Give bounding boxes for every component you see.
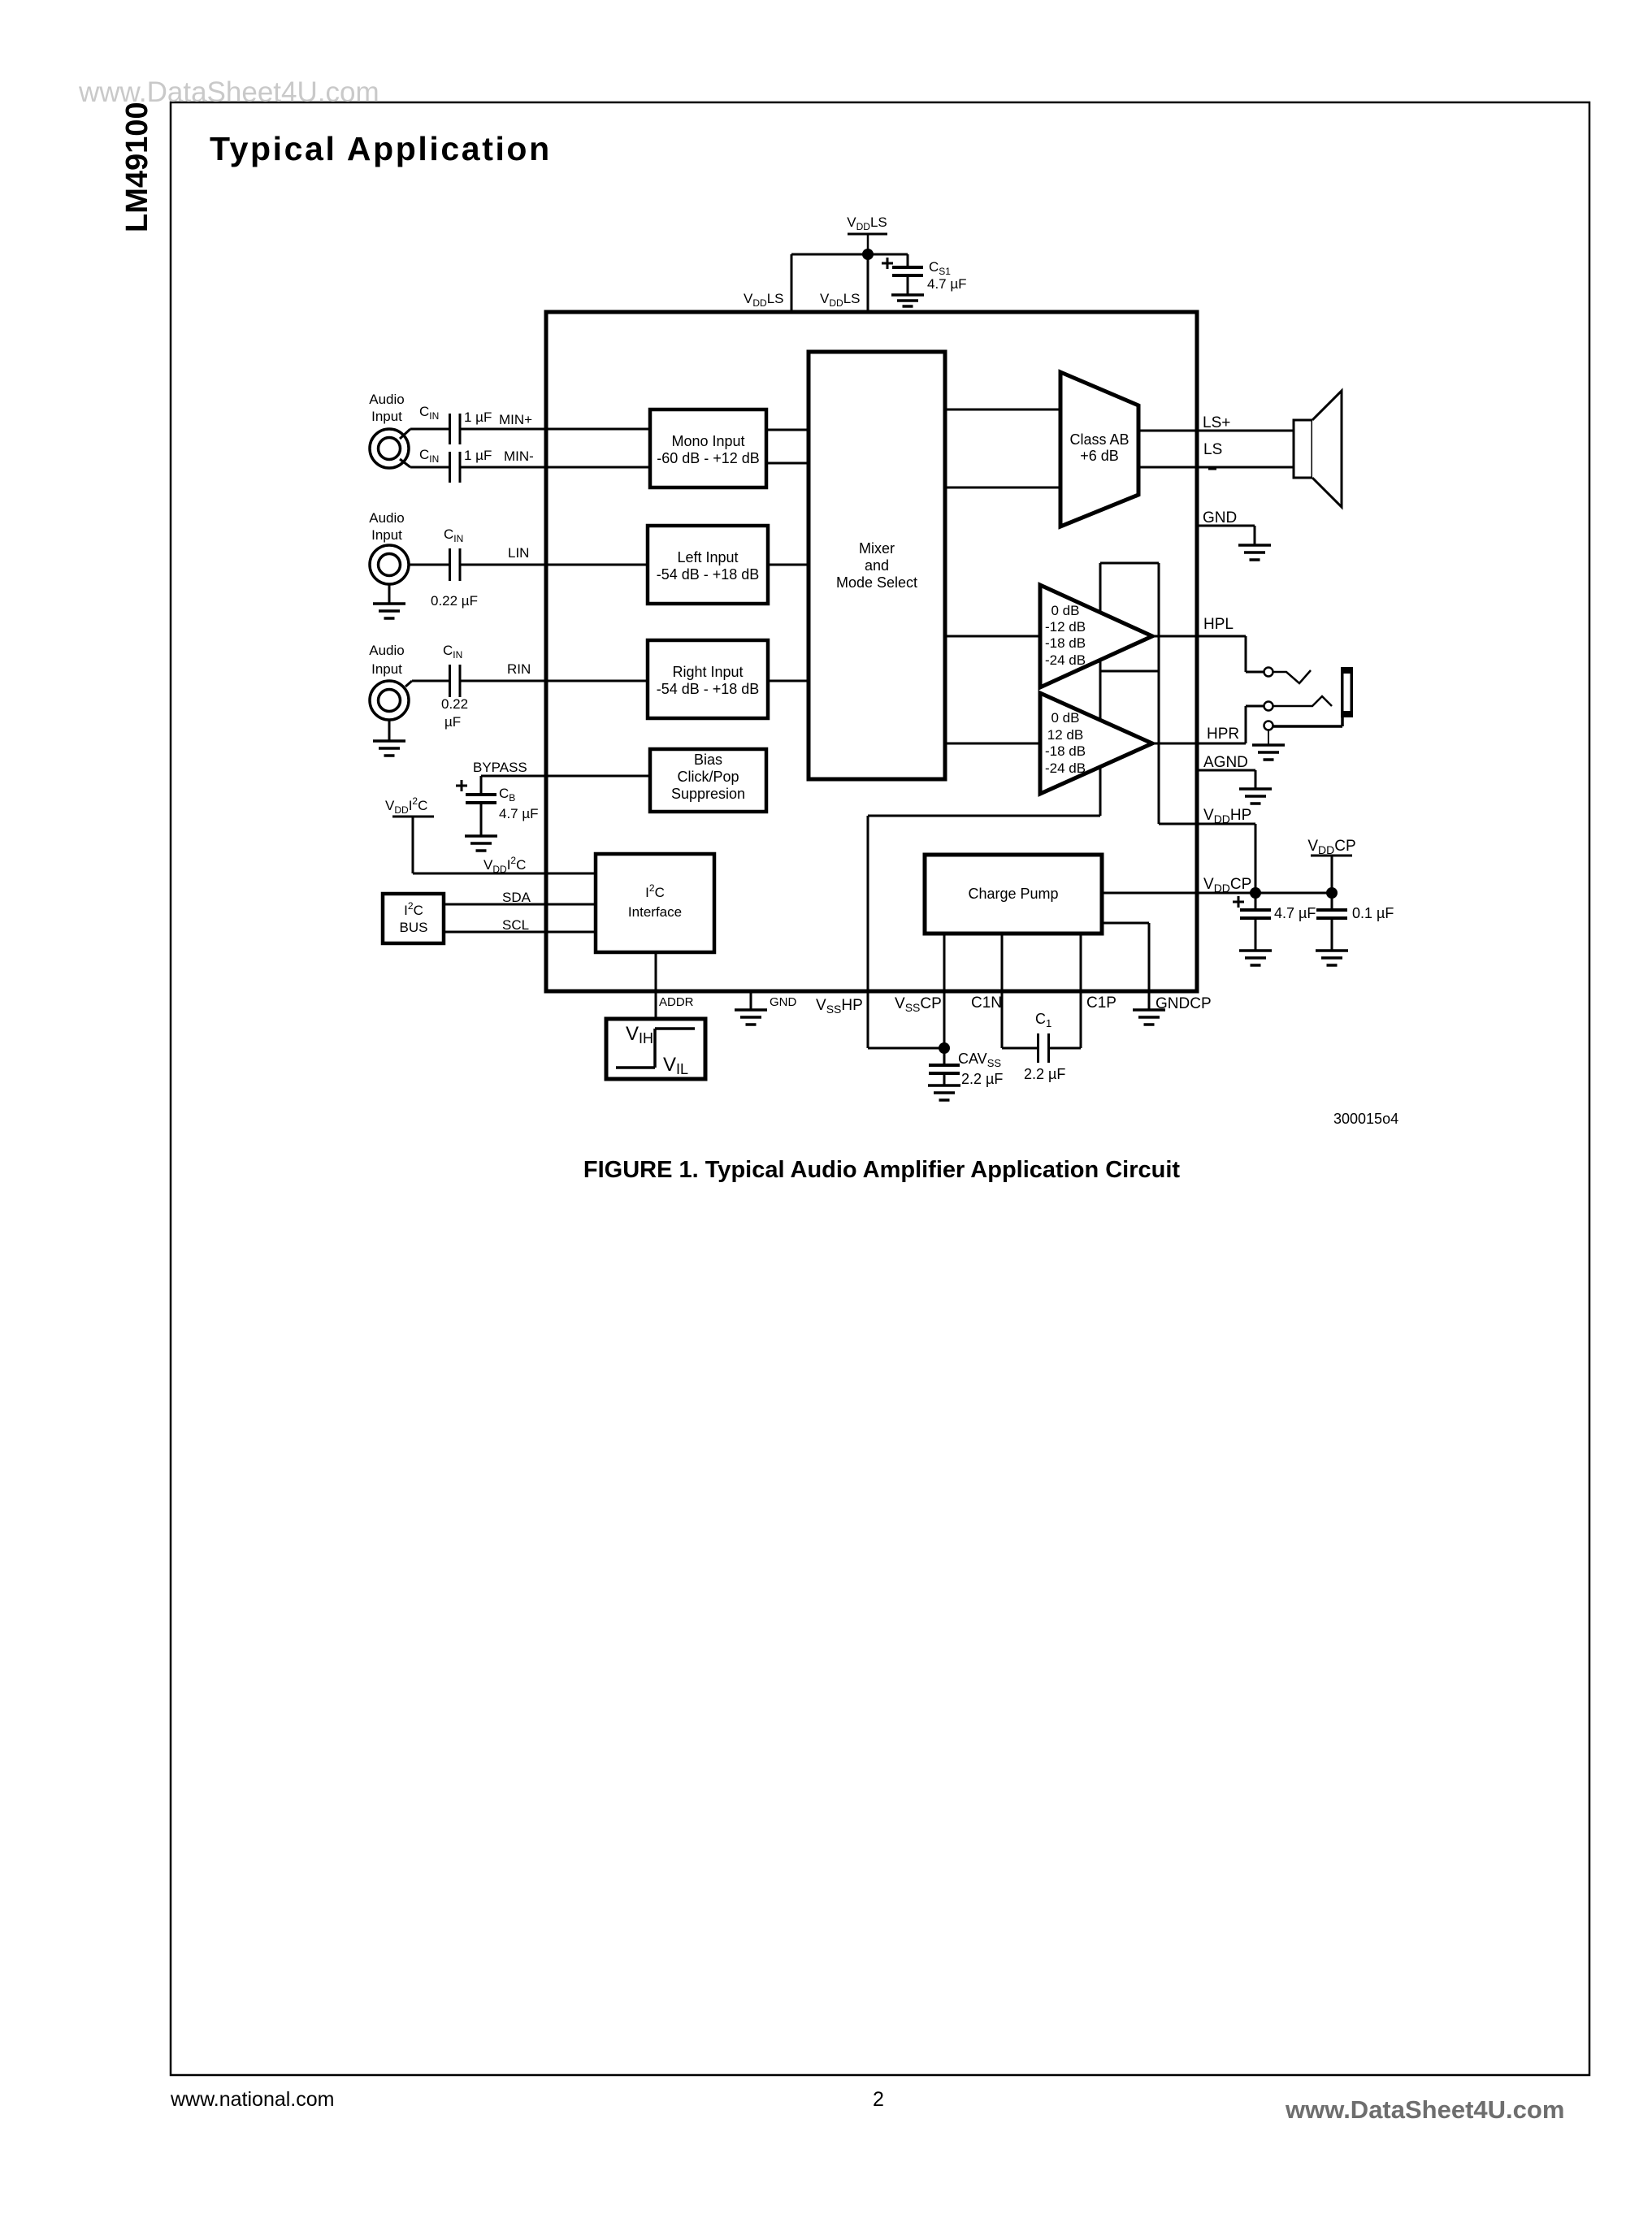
svg-text:0 dB: 0 dB [1051,710,1080,726]
svg-text:RIN: RIN [507,661,531,677]
wire LS+ [1138,430,1294,432]
wire C1N pin [1001,934,1004,1048]
wire mono to mixer b [766,462,809,465]
svg-text:AGND: AGND [1203,754,1248,771]
svg-text:Audio: Audio [369,510,404,526]
wire MIN- [410,466,449,469]
svg-text:I2​C: I2​C [645,882,665,900]
wire BYPASS [481,775,650,778]
svg-text:SDA: SDA [502,890,531,905]
block Bias Click/Pop Suppresion [650,749,766,812]
ground CB [465,834,497,838]
svg-text:-54 dB - +18 dB: -54 dB - +18 dB [657,681,760,697]
ground speaker GND [1238,544,1271,547]
wire rail mid connector [1100,670,1159,673]
svg-text:Input: Input [371,661,402,677]
svg-text:Audio: Audio [369,392,404,407]
svg-text:C1N: C1N [971,994,1002,1012]
svg-text:BYPASS: BYPASS [473,760,527,775]
capacitor CIN 0.22uF (RIN) [449,665,451,697]
svg-text:Mixer: Mixer [859,540,895,557]
svg-text:0.22 µF: 0.22 µF [431,593,478,609]
wire mixer to class AB a [945,409,1060,411]
block I2C Interface [596,854,714,952]
svg-text:1 µF: 1 µF [464,448,492,463]
block Mixer and Mode Select [809,352,945,779]
svg-text:300015o4: 300015o4 [1333,1111,1398,1127]
switch tip lever [1273,670,1311,683]
block VIH VIL logic levels [606,1019,705,1079]
wire mixer to HPL amp [945,635,1040,638]
svg-text:HPL: HPL [1203,616,1234,633]
capacitor 4.7uF VDDCP [1255,893,1257,910]
capacitor 0.1uF VDDCP [1331,893,1333,910]
svg-text:4.7 µF: 4.7 µF [499,806,539,821]
svg-text:Mode Select: Mode Select [836,574,917,591]
ground jack sleeve [1268,730,1269,745]
jack sleeve contact [1264,721,1273,730]
rail VDDHP vertical [1158,563,1160,824]
wire VDDCP [1102,892,1332,895]
wire ADDR [655,952,657,1019]
svg-text:12 dB: 12 dB [1047,727,1083,743]
svg-text:Mono Input: Mono Input [671,433,744,449]
wire VDDHP to pin [1159,823,1197,825]
ground CAVSS [928,1084,960,1087]
ground 4.7uF [1239,949,1272,952]
wire mixer to HPR amp [945,743,1040,745]
svg-text:-60 dB - +12 dB: -60 dB - +12 dB [657,450,760,466]
wire mixer to class AB b [945,487,1060,489]
wire rail top connector [1100,562,1159,565]
amplifier HPR headphone right [1040,693,1152,794]
svg-text:0.22: 0.22 [441,696,468,712]
wire AGND [1197,769,1255,772]
wire GND speaker [1197,525,1255,527]
svg-text:2: 2 [873,2088,884,2111]
svg-text:BUS: BUS [400,920,428,935]
capacitor CIN 1uF (MIN+) [449,414,451,444]
RCA jack J3 [370,681,409,720]
svg-text:www.DataSheet4U.com: www.DataSheet4U.com [1285,2095,1564,2124]
svg-text:Left Input: Left Input [677,549,738,565]
wire MIN+ [410,428,449,431]
svg-text:Right Input: Right Input [672,664,743,680]
svg-text:Interface: Interface [628,904,682,920]
svg-text:Audio: Audio [369,643,404,658]
RCA jack J1 [370,429,409,468]
svg-text:FIGURE 1. Typical Audio Amplif: FIGURE 1. Typical Audio Amplifier Applic… [583,1157,1181,1183]
svg-text:4.7 µF: 4.7 µF [927,276,967,292]
svg-text:4.7 µF: 4.7 µF [1274,905,1316,921]
svg-text:2.2 µF: 2.2 µF [961,1071,1003,1087]
wire sleeve to jack body [1273,725,1342,728]
rail VSSHP vertical [1099,563,1102,816]
wire VDDLS to pin2 [867,254,869,312]
wire GNDCP [1102,922,1149,925]
ground CS1 [891,293,924,297]
svg-text:Bias: Bias [694,752,722,768]
wire SCL [444,931,596,934]
svg-text:-24 dB: -24 dB [1045,760,1086,776]
wire HPL output [1152,635,1246,638]
svg-text:Input: Input [371,527,402,543]
svg-text:Charge Pump: Charge Pump [968,886,1058,902]
jack tip contact [1264,668,1273,677]
svg-text:+6 dB: +6 dB [1080,448,1119,464]
wire VSSCP pin [943,934,946,1048]
junction VDDCP a [1250,887,1261,899]
jack ring contact [1264,702,1273,711]
svg-text:www.national.com: www.national.com [170,2088,334,2111]
capacitor CIN 0.22uF (LIN) [449,548,451,581]
RCA jack J2 [370,545,409,584]
block Mono Input [650,409,766,487]
speaker LS [1294,420,1312,478]
capacitor CIN 1uF (MIN-) [449,452,451,483]
amplifier Class AB +6dB [1060,372,1138,526]
IC boundary U1 LM49100 [546,312,1197,991]
svg-text:0.1 µF: 0.1 µF [1352,905,1394,921]
block Left Input [648,526,768,604]
junction VSSCP node [939,1042,950,1054]
wire RIN [412,680,449,682]
ground GND bottom [750,991,752,1010]
svg-text:ADDR: ADDR [659,995,694,1009]
svg-text:MIN+: MIN+ [499,412,532,427]
svg-text:-24 dB: -24 dB [1045,652,1086,668]
svg-text:-54 dB - +18 dB: -54 dB - +18 dB [657,566,760,583]
svg-text:µF: µF [444,714,461,730]
wire right to mixer [768,680,809,682]
svg-text:-18 dB: -18 dB [1045,743,1086,759]
svg-text:Typical Application: Typical Application [210,130,552,167]
wire LS- [1138,466,1294,469]
svg-text:C1P: C1P [1086,994,1117,1012]
ground GNDCP [1133,1008,1165,1012]
svg-text:-18 dB: -18 dB [1045,635,1086,651]
capacitor C1 2.2uF [1037,1033,1039,1063]
svg-text:GND: GND [1203,509,1237,526]
wire VDDI2C to interface [413,873,596,875]
block Right Input [648,640,768,718]
svg-text:Class AB: Class AB [1069,431,1129,448]
svg-text:MIN-: MIN- [504,448,534,464]
svg-text:2.2 µF: 2.2 µF [1024,1066,1065,1082]
svg-text:and: and [865,557,889,574]
wire left to mixer [768,564,809,566]
svg-text:Click/Pop: Click/Pop [677,769,739,785]
svg-text:Input: Input [371,409,402,424]
wire VSSHP to pin [868,815,1100,817]
svg-text:HPR: HPR [1207,726,1239,743]
wire VSS junction [868,1047,944,1050]
block Charge Pump [925,855,1102,934]
capacitor CS1 4.7uF [882,262,893,265]
capacitor CB 4.7uF [480,776,483,795]
ground AGND [1239,787,1272,791]
wire LIN [409,564,449,566]
svg-text:SCL: SCL [502,917,529,933]
ground J3 [388,720,391,741]
svg-text:-12 dB: -12 dB [1045,619,1086,635]
capacitor CAVSS 2.2uF [943,1048,946,1065]
wire VDDHP external [1197,823,1255,825]
ground J2 [388,584,391,604]
wire HPR output [1152,743,1246,745]
wire SDA [444,903,596,906]
svg-text:LS: LS [1203,441,1222,458]
amplifier HPL headphone left [1040,585,1152,687]
wire C1P pin [1049,1047,1081,1050]
ground 0.1uF [1316,949,1348,952]
svg-text:GND: GND [770,995,797,1009]
junction VDDCP b [1326,887,1338,899]
svg-text:LS+: LS+ [1203,414,1230,431]
svg-text:LM49100: LM49100 [120,102,154,232]
headphone plug body [1341,667,1353,717]
block I2C BUS [383,894,444,943]
junction VDDLS node [862,249,874,260]
wire VDDLS to CS1 [868,253,908,256]
switch ring lever [1273,696,1332,706]
wire mono to mixer a [766,429,809,431]
svg-text:Suppresion: Suppresion [671,786,745,802]
svg-text:I2​C: I2​C [404,900,423,918]
svg-text:1 µF: 1 µF [464,409,492,425]
wire VDDLS to pin1 [791,253,868,256]
svg-text:LIN: LIN [508,545,529,561]
svg-text:0 dB: 0 dB [1051,603,1080,618]
